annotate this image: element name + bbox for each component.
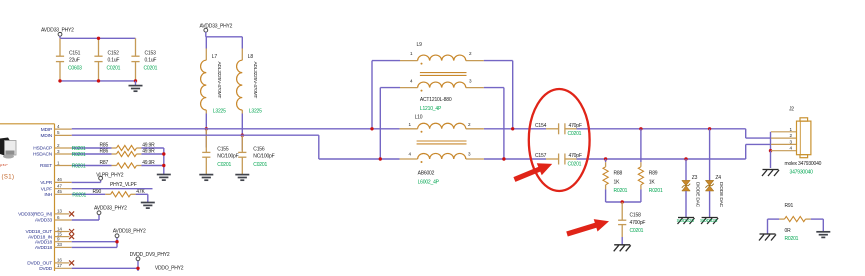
svg-text:SOD323: SOD323 (677, 218, 695, 224)
svg-text:C0201: C0201 (217, 162, 231, 168)
svg-text:AVDD18: AVDD18 (35, 245, 53, 251)
svg-text:C158: C158 (630, 212, 642, 218)
svg-text:AVDD33_PHY2: AVDD33_PHY2 (94, 206, 127, 212)
svg-text:C0201: C0201 (253, 162, 267, 168)
svg-text:L3225: L3225 (213, 109, 226, 115)
svg-text:R88: R88 (614, 170, 623, 176)
svg-text:HSDACN: HSDACN (33, 152, 53, 158)
svg-text:MDIP: MDIP (41, 127, 52, 133)
svg-text:L3225: L3225 (249, 109, 262, 115)
svg-text:HSDACP: HSDACP (33, 146, 52, 152)
svg-text:22uF: 22uF (69, 58, 80, 64)
svg-text:SOD323: SOD323 (700, 218, 718, 224)
svg-text:DVDD_OUT: DVDD_OUT (27, 261, 52, 267)
svg-text:R91: R91 (785, 203, 794, 209)
svg-text:AB6002: AB6002 (418, 171, 435, 177)
svg-text:DVDD_DV9_PHY2: DVDD_DV9_PHY2 (130, 252, 170, 258)
svg-text:DIODE DAC: DIODE DAC (718, 182, 724, 208)
svg-text:R90: R90 (93, 189, 102, 195)
svg-text:VLPR: VLPR (40, 180, 52, 186)
svg-text:L10: L10 (415, 115, 423, 121)
svg-text:R86: R86 (100, 149, 109, 155)
svg-text:R87: R87 (100, 160, 109, 166)
svg-text:L9: L9 (417, 42, 423, 48)
svg-text:470pF: 470pF (569, 153, 582, 159)
svg-text:0R: 0R (785, 228, 792, 234)
svg-text:L8: L8 (248, 54, 254, 60)
svg-text:C0603: C0603 (68, 66, 82, 72)
svg-text:470pF: 470pF (569, 123, 582, 129)
svg-text:45: 45 (57, 189, 62, 194)
svg-text:NC/100pF: NC/100pF (217, 154, 238, 160)
svg-text:C152: C152 (108, 51, 120, 57)
svg-text:molex 347930040: molex 347930040 (785, 161, 822, 167)
svg-text:MDIN: MDIN (41, 133, 53, 139)
svg-text:C156: C156 (253, 146, 265, 152)
svg-text:AVDD18: AVDD18 (35, 239, 53, 245)
svg-text:C0201: C0201 (568, 131, 582, 137)
svg-text:ACT1210L-880: ACT1210L-880 (420, 97, 452, 103)
svg-text:R89: R89 (649, 170, 658, 176)
svg-text:C151: C151 (69, 51, 81, 57)
svg-text:R0201: R0201 (72, 164, 86, 170)
svg-text:INH: INH (44, 192, 52, 198)
svg-text:AVDD33_PHY2: AVDD33_PHY2 (200, 24, 233, 30)
svg-text:R0201: R0201 (72, 152, 86, 158)
svg-text:ADL3225V-470MT: ADL3225V-470MT (216, 62, 222, 99)
svg-text:AVDD18_IN: AVDD18_IN (28, 234, 53, 240)
svg-text:Z4: Z4 (715, 175, 721, 181)
svg-text:VLPR_PHY2: VLPR_PHY2 (96, 173, 124, 179)
svg-text:13: 13 (57, 209, 62, 214)
svg-text:C153: C153 (145, 51, 157, 57)
svg-text:C0201: C0201 (568, 161, 582, 167)
svg-text:(S1): (S1) (2, 174, 15, 180)
svg-text:1K: 1K (614, 180, 621, 186)
svg-text:17: 17 (57, 263, 62, 268)
svg-text:Z3: Z3 (692, 175, 698, 181)
svg-text:R0201: R0201 (785, 236, 799, 242)
svg-text:C0201: C0201 (630, 228, 644, 234)
svg-text:R0201: R0201 (649, 188, 663, 194)
svg-text:0.1uF: 0.1uF (108, 58, 120, 64)
svg-text:4700pF: 4700pF (630, 220, 646, 226)
svg-text:C154: C154 (535, 123, 547, 129)
svg-text:33: 33 (57, 242, 62, 247)
svg-text:C155: C155 (217, 146, 229, 152)
svg-text:47: 47 (57, 184, 62, 189)
svg-text:1K: 1K (649, 180, 656, 186)
svg-text:347930040: 347930040 (790, 169, 814, 175)
svg-text:0.1uF: 0.1uF (145, 58, 157, 64)
svg-text:46: 46 (57, 177, 62, 182)
svg-text:16: 16 (57, 258, 62, 263)
svg-text:VDD33(REG_IN): VDD33(REG_IN) (18, 212, 53, 218)
svg-text:R0201: R0201 (614, 188, 628, 194)
svg-text:DVDD: DVDD (39, 266, 53, 271)
svg-text:PHY2_VLPF: PHY2_VLPF (110, 182, 137, 188)
svg-text:DIODE DAC: DIODE DAC (694, 182, 700, 208)
svg-text:J2: J2 (789, 106, 794, 112)
svg-text:ADL3225V-470MT: ADL3225V-470MT (252, 62, 258, 99)
svg-text:R0201: R0201 (72, 192, 86, 198)
svg-text:C157: C157 (535, 153, 547, 159)
svg-text:L1210_4P: L1210_4P (420, 106, 442, 112)
svg-text:VDD18_OUT: VDD18_OUT (26, 229, 53, 235)
svg-text:C0201: C0201 (144, 66, 158, 72)
svg-text:AVDD18_PHY2: AVDD18_PHY2 (113, 229, 146, 235)
svg-text:NC/100pF: NC/100pF (253, 154, 274, 160)
svg-text:C0201: C0201 (107, 66, 121, 72)
svg-text:VDDO_PHY2: VDDO_PHY2 (155, 265, 184, 271)
svg-text:AVDD33: AVDD33 (35, 218, 53, 224)
svg-text:VLPF: VLPF (41, 186, 52, 192)
svg-text:L7: L7 (212, 54, 218, 60)
svg-text:RSET: RSET (40, 163, 52, 169)
svg-text:µ ʙ ʟᵃ: µ ʙ ʟᵃ (0, 163, 8, 167)
svg-text:L6002_4P: L6002_4P (418, 179, 440, 185)
svg-text:AVDD33_PHY2: AVDD33_PHY2 (41, 28, 74, 34)
